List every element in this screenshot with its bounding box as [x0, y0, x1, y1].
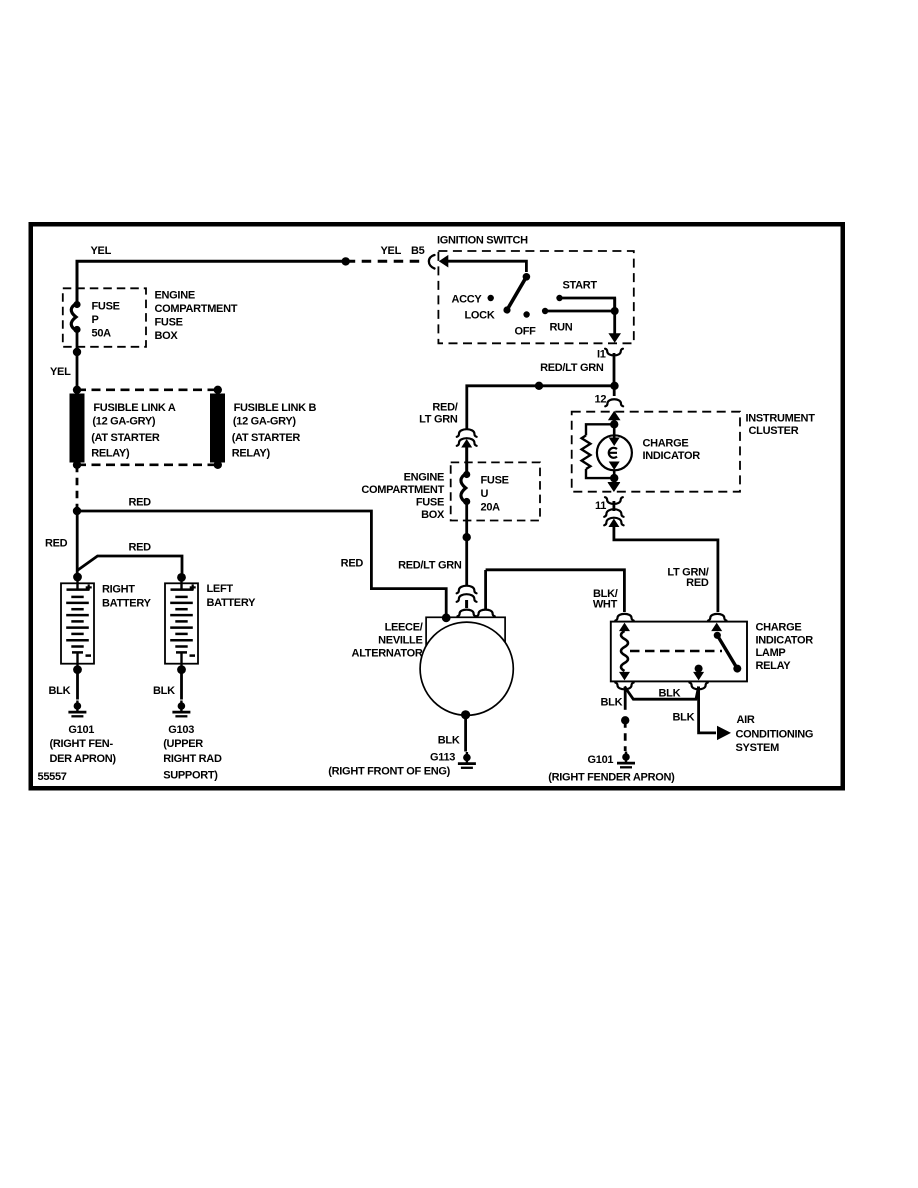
ignition switch box (dashed) — [438, 251, 633, 343]
svg-text:BLK: BLK — [659, 688, 681, 700]
switch blade ACCY-LOCK — [503, 277, 526, 314]
label RED/ LT GRN (above fuse U) — [419, 402, 458, 426]
wire BLK alternator to ground — [464, 715, 467, 752]
svg-text:CHARGE: CHARGE — [756, 622, 802, 634]
node below fuse P — [73, 348, 81, 356]
wire dashed below fusible link A — [76, 465, 79, 508]
svg-text:RED/LT GRN: RED/LT GRN — [398, 560, 462, 572]
wire relay contact to bottom edge — [693, 669, 704, 681]
svg-text:INDICATOR: INDICATOR — [643, 450, 701, 462]
svg-text:LOCK: LOCK — [465, 310, 495, 322]
svg-text:BATTERY: BATTERY — [207, 597, 257, 609]
wire BLK/WHT alternator to relay — [486, 570, 625, 612]
wire ignition output down with arrow — [608, 298, 621, 343]
inline connector above alternator terminal — [457, 586, 477, 608]
label BLK (to A/C) — [673, 712, 695, 724]
node right battery - terminal — [73, 665, 82, 674]
svg-text:RED: RED — [686, 577, 709, 589]
connector 11 pair — [604, 483, 623, 528]
ground G101 (relay) — [617, 752, 635, 768]
label RIGHT BATTERY — [102, 584, 152, 610]
node alternator ground terminal — [461, 710, 470, 719]
node junction below I1 — [610, 382, 618, 390]
svg-text:YEL: YEL — [50, 366, 71, 378]
label FUSIBLE LINK A — [91, 402, 176, 460]
svg-text:RELAY): RELAY) — [232, 448, 271, 460]
label RED (left of drop) — [341, 558, 364, 570]
node left battery + terminal — [177, 573, 186, 582]
svg-text:COMPARTMENT: COMPARTMENT — [361, 484, 444, 496]
svg-text:LT GRN: LT GRN — [419, 414, 458, 426]
label IGNITION SWITCH — [437, 235, 528, 247]
svg-text:(AT STARTER: (AT STARTER — [91, 432, 160, 444]
wire BLK right battery to ground — [76, 670, 79, 700]
label BLK (right battery) — [49, 685, 71, 697]
label YEL (below fuse P) — [50, 366, 71, 378]
svg-text:11: 11 — [595, 500, 606, 512]
wire BLK left battery to ground — [180, 670, 183, 700]
node ignition output junction — [611, 307, 619, 315]
label G101 (right battery) — [68, 724, 94, 736]
svg-text:55557: 55557 — [38, 771, 67, 783]
svg-text:DER APRON): DER APRON) — [50, 753, 117, 765]
charge indicator lamp relay box — [611, 622, 747, 682]
svg-text:FUSE: FUSE — [481, 475, 509, 487]
relay coil with arrows — [619, 623, 630, 681]
relay bottom-middle connector socket — [689, 683, 707, 690]
node splice on RED/LT GRN wire — [535, 382, 543, 390]
svg-text:RED/: RED/ — [432, 402, 457, 414]
label G101 (relay) — [588, 754, 614, 766]
svg-text:YEL: YEL — [381, 245, 402, 257]
wire YEL from fuse P up and right to splice — [77, 261, 346, 305]
fusible link B bar — [210, 394, 225, 463]
node RED distribution junction — [73, 507, 81, 515]
svg-text:G101: G101 — [588, 754, 614, 766]
wire cluster exit with down arrow — [608, 478, 621, 491]
label YEL (top left) — [91, 245, 112, 257]
wire RED long to alternator — [77, 511, 446, 616]
label CHARGE INDICATOR LAMP RELAY — [756, 622, 814, 673]
svg-text:RIGHT RAD: RIGHT RAD — [163, 753, 222, 765]
svg-text:AIR: AIR — [737, 714, 755, 726]
svg-text:RIGHT: RIGHT — [102, 584, 135, 596]
wire RED branch to left battery — [77, 556, 182, 577]
label CHARGE INDICATOR — [643, 438, 701, 463]
svg-text:20A: 20A — [481, 502, 501, 514]
svg-text:BLK: BLK — [673, 712, 695, 724]
svg-text:BLK: BLK — [153, 685, 175, 697]
label FUSE P 50A — [92, 301, 120, 340]
label INSTRUMENT CLUSTER — [746, 413, 816, 438]
svg-text:ACCY: ACCY — [452, 294, 483, 306]
node cluster top junction — [610, 420, 618, 428]
connector B5 half-circle — [429, 255, 435, 269]
svg-text:INDICATOR: INDICATOR — [756, 635, 814, 647]
svg-text:I1: I1 — [597, 349, 606, 361]
label B5 — [411, 245, 425, 257]
contact ACCY — [488, 295, 494, 301]
wire YEL below fuse P — [76, 331, 79, 389]
label FUSIBLE LINK B — [232, 402, 317, 460]
wire dashed to ground G101 — [624, 720, 627, 751]
relay switch terminal socket (top right) — [708, 614, 726, 621]
svg-text:OFF: OFF — [515, 326, 537, 338]
svg-text:FUSE: FUSE — [92, 301, 120, 313]
node cluster bottom junction — [610, 474, 618, 482]
label AIR CONDITIONING SYSTEM — [736, 714, 814, 754]
wire RED down to right battery — [76, 511, 79, 577]
ground G113 — [458, 752, 476, 768]
charge indicator lamp — [597, 424, 632, 478]
svg-text:CHARGE: CHARGE — [643, 438, 689, 450]
svg-text:G101: G101 — [68, 724, 94, 736]
ground G103 (left battery) — [172, 701, 190, 717]
wire cluster entry with up arrow — [608, 411, 621, 425]
svg-text:BLK: BLK — [438, 735, 460, 747]
inline connector on RED/LT GRN above fuse U — [457, 429, 477, 472]
svg-text:CLUSTER: CLUSTER — [749, 425, 799, 437]
label RED (battery branch) — [129, 542, 152, 554]
relay switch blade — [711, 623, 741, 673]
node alternator B+ junction — [442, 613, 451, 622]
connector I1 socket — [605, 349, 623, 386]
label RED/LT GRN (above alternator) — [398, 560, 462, 572]
node fusible link B bottom — [214, 461, 222, 469]
svg-text:RED: RED — [341, 558, 364, 570]
svg-text:(RIGHT FENDER APRON): (RIGHT FENDER APRON) — [548, 772, 675, 784]
label UPPER RIGHT RAD SUPPORT — [163, 738, 222, 782]
svg-text:WHT: WHT — [593, 599, 618, 611]
label BLK (left battery) — [153, 685, 175, 697]
alternator terminal 1 socket — [457, 610, 475, 617]
svg-text:RELAY): RELAY) — [91, 448, 130, 460]
connector 12 plug — [605, 386, 623, 407]
arrow to air conditioning system — [717, 726, 731, 740]
svg-text:(RIGHT FEN-: (RIGHT FEN- — [50, 738, 114, 750]
wire YEL dashed to ignition switch connector B5 — [346, 260, 425, 263]
label BLK (relay ground) — [601, 697, 623, 709]
node splice below fuse U — [463, 533, 471, 541]
contact OFF — [523, 311, 529, 317]
engine compartment fuse box P (dashed) — [63, 288, 146, 347]
svg-text:SYSTEM: SYSTEM — [736, 742, 780, 754]
wire RED/LT GRN below fuse U — [465, 503, 468, 585]
node fusible link B top — [214, 386, 222, 394]
label LEECE/NEVILLE ALTERNATOR — [352, 622, 423, 660]
node fusible link A top — [73, 386, 81, 394]
fusible link A bar — [70, 394, 85, 463]
svg-text:FUSIBLE LINK A: FUSIBLE LINK A — [93, 402, 176, 414]
label RED/LT GRN (below I1) — [540, 362, 604, 374]
label RIGHT FENDER APRON (relay) — [548, 772, 675, 784]
svg-text:SUPPORT): SUPPORT) — [163, 770, 218, 782]
label 12 — [595, 394, 607, 406]
battery right (symbol) — [61, 577, 94, 670]
label OFF — [515, 326, 537, 338]
svg-text:(12 GA-GRY): (12 GA-GRY) — [233, 416, 297, 428]
svg-text:RED/LT GRN: RED/LT GRN — [540, 362, 604, 374]
svg-text:FUSIBLE LINK B: FUSIBLE LINK B — [234, 402, 317, 414]
svg-text:(12 GA-GRY): (12 GA-GRY) — [92, 416, 156, 428]
label 55557 — [38, 771, 67, 783]
node fusible link A bottom — [73, 461, 81, 469]
svg-text:LEFT: LEFT — [207, 583, 234, 595]
node splice on YEL wire — [342, 257, 350, 265]
wire RED/LT GRN horizontal from fuse U branch to I1 — [467, 386, 615, 430]
label RIGHT FRONT OF ENG — [328, 766, 450, 778]
fuse U element — [461, 471, 470, 505]
label LEFT BATTERY — [207, 583, 257, 609]
svg-text:12: 12 — [595, 394, 607, 406]
label RED (left) — [45, 538, 68, 550]
label BLK (jumper) — [659, 688, 681, 700]
svg-text:IGNITION SWITCH: IGNITION SWITCH — [437, 235, 528, 247]
svg-text:BLK: BLK — [49, 685, 71, 697]
label I1 — [597, 349, 606, 361]
svg-text:FUSE: FUSE — [155, 317, 183, 329]
label G103 — [168, 724, 194, 736]
svg-text:START: START — [563, 280, 598, 292]
svg-text:BATTERY: BATTERY — [102, 598, 152, 610]
wire BLK to air conditioning — [699, 687, 716, 733]
wire BLK jumper between relay bottom terminals — [625, 687, 699, 700]
svg-text:YEL: YEL — [91, 245, 112, 257]
svg-text:FUSE: FUSE — [416, 497, 444, 509]
svg-text:COMPARTMENT: COMPARTMENT — [155, 303, 238, 315]
fusible link box top dashed wire — [77, 388, 218, 391]
instrument cluster box (dashed) — [572, 412, 740, 492]
svg-text:P: P — [92, 314, 99, 326]
relay coil terminal socket (top left) — [615, 614, 633, 621]
label RUN — [550, 322, 573, 334]
wire BLK relay to ground — [624, 687, 627, 710]
svg-text:50A: 50A — [92, 328, 112, 340]
wire START to output — [560, 298, 615, 311]
node relay ground splice — [621, 716, 629, 724]
svg-text:RUN: RUN — [550, 322, 573, 334]
node right battery + terminal — [73, 573, 82, 582]
svg-text:NEVILLE: NEVILLE — [378, 635, 422, 647]
label ENGINE COMPARTMENT FUSE BOX (left) — [155, 290, 238, 343]
wire LT GRN/RED cluster to relay — [614, 521, 718, 612]
svg-text:ALTERNATOR: ALTERNATOR — [352, 648, 423, 660]
svg-text:G113: G113 — [430, 752, 455, 764]
svg-text:LAMP: LAMP — [756, 647, 786, 659]
svg-text:RED: RED — [45, 538, 68, 550]
label YEL (at B5) — [381, 245, 402, 257]
label 11 — [595, 500, 606, 512]
svg-text:ENGINE: ENGINE — [155, 290, 195, 302]
ground G101 (right battery) — [68, 701, 86, 717]
label BLK/WHT — [593, 588, 618, 611]
label LT GRN/RED — [667, 567, 708, 590]
label BLK (alternator) — [438, 735, 460, 747]
svg-text:BOX: BOX — [155, 330, 179, 342]
fuse P element — [71, 301, 80, 333]
alternator terminal 2 socket — [476, 570, 494, 616]
svg-text:INSTRUMENT: INSTRUMENT — [746, 413, 816, 425]
svg-text:BOX: BOX — [421, 509, 445, 521]
contact RUN — [542, 308, 548, 314]
svg-text:(AT STARTER: (AT STARTER — [232, 432, 301, 444]
label START — [563, 280, 598, 292]
svg-text:B5: B5 — [411, 245, 425, 257]
svg-text:G103: G103 — [168, 724, 194, 736]
wire RUN to output — [545, 310, 615, 313]
contact START — [556, 295, 562, 301]
node relay contact output — [695, 665, 703, 673]
relay bottom-left connector socket — [615, 683, 633, 690]
svg-text:U: U — [481, 488, 489, 500]
wire ignition feed with left arrow into B5 — [439, 255, 527, 272]
svg-text:RELAY: RELAY — [756, 660, 792, 672]
label RED (above long wire) — [129, 497, 152, 509]
alternator body — [420, 617, 513, 715]
svg-text:CONDITIONING: CONDITIONING — [736, 729, 814, 741]
fusible link box bottom dashed wire — [77, 463, 218, 466]
label G113 — [430, 752, 455, 764]
svg-text:RED: RED — [129, 497, 152, 509]
relay mechanical link (dashed) — [630, 650, 722, 653]
svg-text:RED: RED — [129, 542, 152, 554]
label ACCY — [452, 294, 483, 306]
svg-text:LEECE/: LEECE/ — [385, 622, 423, 634]
node left battery - terminal — [177, 665, 186, 674]
label RIGHT FENDER APRON — [50, 738, 117, 765]
resistor (charge indicator shunt) — [582, 424, 615, 478]
svg-text:BLK: BLK — [601, 697, 623, 709]
label FUSE U 20A — [481, 475, 509, 514]
svg-text:ENGINE: ENGINE — [404, 472, 444, 484]
engine compartment fuse box U (dashed) — [451, 462, 540, 520]
node switch pivot — [523, 273, 531, 281]
svg-text:(RIGHT FRONT OF ENG): (RIGHT FRONT OF ENG) — [328, 766, 450, 778]
label ENGINE COMPARTMENT FUSE BOX (right) — [361, 472, 445, 522]
battery left (symbol) — [165, 577, 198, 670]
contact LOCK — [465, 310, 495, 322]
svg-text:(UPPER: (UPPER — [163, 738, 203, 750]
